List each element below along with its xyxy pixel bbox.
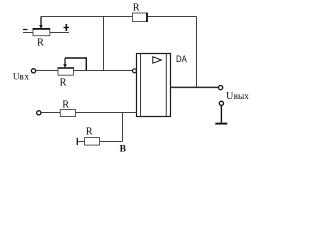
op-amp U1 body <box>137 54 171 117</box>
inverting input circle of op-amp <box>133 69 137 73</box>
svg-text:В: В <box>120 143 127 154</box>
wire (junction down to inverting input) <box>103 17 105 71</box>
svg-text:R: R <box>86 126 93 137</box>
wire (branch down to R5) <box>122 113 124 142</box>
wire <box>50 32 69 34</box>
svg-text:R: R <box>133 2 140 13</box>
resistor R4 body <box>60 110 75 117</box>
wire (top rail from wiper to feedback resistor) <box>41 16 133 18</box>
resistor R2 feedback body <box>133 13 148 22</box>
wire (down right side) <box>196 17 198 88</box>
wire (to inverting input) <box>74 70 133 72</box>
wire (feedback to output node) <box>148 16 197 18</box>
common terminal circle <box>219 101 223 105</box>
plus sign (positive supply) <box>64 24 70 31</box>
potentiometer R3 body <box>58 68 74 75</box>
svg-text:вх: вх <box>19 73 29 83</box>
wire stub <box>78 141 85 143</box>
wire (to non-inverting input) <box>76 112 137 114</box>
resistor R5 body <box>85 138 100 146</box>
svg-text:R: R <box>60 78 67 89</box>
op-amp right field line <box>165 54 167 117</box>
output terminal <box>219 86 223 90</box>
wire <box>41 112 60 114</box>
wiper arrow of R1 <box>39 17 43 29</box>
amplifier triangle symbol <box>153 57 162 64</box>
ground bar <box>215 123 227 125</box>
svg-text:R: R <box>62 99 69 110</box>
svg-text:DA: DA <box>176 54 188 64</box>
wire (wiper loop of R3) <box>65 58 86 71</box>
terminal bar <box>76 138 78 145</box>
potentiometer R1 body <box>33 29 50 36</box>
wire <box>23 32 34 34</box>
ground stem <box>220 106 222 123</box>
wiper arrow of R3 <box>63 58 67 68</box>
wire (op-amp output) <box>171 86 219 88</box>
non-inverting input terminal <box>37 111 41 115</box>
svg-text:вых: вых <box>234 92 250 102</box>
minus sign (negative supply) <box>23 29 28 31</box>
svg-text:R: R <box>37 38 44 49</box>
input terminal <box>31 69 35 73</box>
op-amp left field line <box>140 54 142 117</box>
wire <box>100 141 123 143</box>
wire <box>36 70 58 72</box>
